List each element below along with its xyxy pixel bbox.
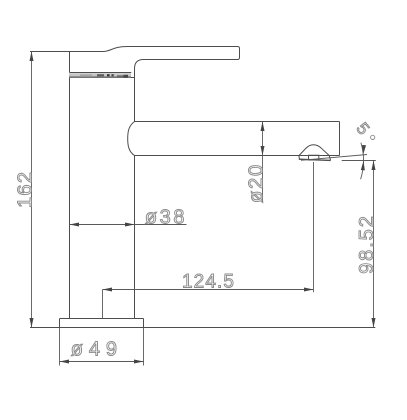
- outlet 5 deg angled extension line: [301, 155, 367, 161]
- arrowheads: [30, 52, 376, 364]
- dim o49 line: [60, 361, 144, 363]
- arrow o49 right: [134, 360, 144, 364]
- handle base left edge: [69, 52, 71, 73]
- spout right end: [339, 122, 341, 156]
- body top edge: [70, 77, 135, 79]
- base flange right: [143, 319, 145, 328]
- spout left cap bulge: [128, 122, 135, 156]
- spout bottom edge: [135, 155, 340, 157]
- arrow o38 right: [125, 223, 135, 227]
- dim 98.52 line: [373, 161, 375, 328]
- dim o49 ext line left: [59, 328, 61, 366]
- arrow 162 bottom: [30, 318, 34, 328]
- spout top edge: [135, 121, 340, 123]
- aerator dome: [299, 145, 329, 156]
- aerator outlet bottom face: [299, 159, 331, 160]
- arrow o49 left: [60, 360, 70, 364]
- dim 124.5 line: [103, 289, 314, 291]
- dimension lines: [32, 52, 376, 366]
- outlet horizontal reference line: [342, 160, 376, 162]
- svg-text:ø38: ø38: [145, 207, 185, 229]
- arrow 124.5 left: [103, 288, 113, 292]
- arrow o20 top: [261, 122, 265, 132]
- dim o38 line: [70, 224, 187, 226]
- body right edge upper: [134, 69, 136, 122]
- aerator outlet left face: [298, 156, 301, 160]
- arrow o20 bottom: [261, 146, 265, 156]
- body left edge: [69, 78, 71, 319]
- dim o49 ext line right: [143, 328, 145, 366]
- dim 124.5 ext line right (aerator center): [313, 162, 315, 292]
- base flange left: [59, 319, 61, 328]
- arrow 124.5 right: [304, 288, 314, 292]
- deck mounting line: [30, 327, 375, 329]
- aerator insert rectangle: [309, 155, 319, 160]
- arrow 98.52 bottom: [372, 318, 376, 328]
- svg-text:ø20: ø20: [245, 165, 267, 203]
- svg-text:5: 5: [352, 119, 373, 138]
- arrow 98.52 top: [372, 161, 376, 171]
- dim 162 line: [31, 52, 33, 328]
- cartridge ring band: [69, 73, 131, 77]
- dim 124.5 ext line left: [102, 290, 104, 319]
- arrow 5deg lower: [361, 161, 366, 171]
- svg-text:ø49: ø49: [71, 339, 117, 361]
- handle base bottom edge: [70, 72, 132, 74]
- svg-text:162: 162: [14, 172, 36, 208]
- faucet handle lever outline: [30, 47, 240, 78]
- arrow 5deg upper: [361, 145, 366, 155]
- svg-text:124.5: 124.5: [182, 271, 234, 292]
- arrow o38 left: [70, 223, 80, 227]
- degree symbol: [371, 135, 375, 139]
- aerator outlet right face: [329, 156, 330, 161]
- 5 deg dimension arc: [361, 143, 364, 180]
- base flange top: [60, 318, 144, 320]
- dimension texts: [14, 119, 378, 361]
- svg-text:98.52: 98.52: [356, 216, 378, 274]
- body right edge lower: [134, 156, 136, 319]
- dim o20 line: [262, 122, 264, 202]
- arrow 162 top: [30, 52, 34, 62]
